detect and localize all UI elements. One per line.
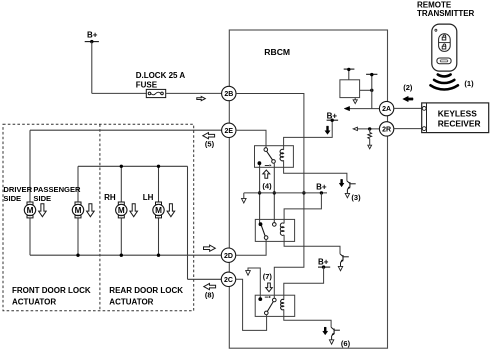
svg-text:FRONT DOOR LOCK: FRONT DOOR LOCK: [12, 286, 91, 295]
svg-text:ACTUATOR: ACTUATOR: [109, 298, 153, 307]
svg-text:ACTUATOR: ACTUATOR: [12, 298, 56, 307]
svg-text:(4): (4): [262, 182, 272, 191]
svg-text:(6): (6): [341, 339, 351, 348]
svg-text:B+: B+: [87, 31, 98, 40]
svg-text:2D: 2D: [224, 253, 233, 260]
svg-text:RBCM: RBCM: [264, 47, 290, 57]
svg-text:REAR DOOR LOCK: REAR DOOR LOCK: [109, 286, 183, 295]
svg-text:(1): (1): [464, 79, 474, 88]
svg-text:2B: 2B: [224, 91, 233, 98]
svg-text:SIDE: SIDE: [3, 194, 21, 203]
svg-text:KEYLESS: KEYLESS: [438, 109, 478, 119]
svg-text:2R: 2R: [382, 127, 391, 134]
svg-text:PASSENGER: PASSENGER: [33, 185, 81, 194]
svg-text:(5): (5): [205, 140, 215, 149]
svg-text:M: M: [27, 206, 34, 215]
svg-text:2C: 2C: [224, 277, 233, 284]
svg-text:SIDE: SIDE: [33, 194, 51, 203]
svg-text:(3): (3): [351, 193, 361, 202]
svg-text:REMOTE: REMOTE: [417, 0, 452, 9]
svg-text:M: M: [75, 206, 82, 215]
svg-text:(8): (8): [205, 290, 215, 299]
svg-text:2E: 2E: [225, 128, 234, 135]
svg-text:B+: B+: [316, 182, 327, 191]
svg-text:FUSE: FUSE: [136, 81, 158, 90]
svg-text:(2): (2): [403, 83, 413, 92]
svg-text:2A: 2A: [382, 106, 391, 113]
svg-text:M: M: [155, 206, 162, 215]
svg-text:RH: RH: [104, 193, 116, 202]
svg-text:RECEIVER: RECEIVER: [438, 118, 481, 128]
svg-text:DRIVER: DRIVER: [3, 185, 32, 194]
svg-text:D.LOCK 25 A: D.LOCK 25 A: [136, 71, 186, 80]
svg-text:B+: B+: [318, 257, 329, 266]
svg-text:LH: LH: [143, 193, 154, 202]
svg-text:(7): (7): [263, 272, 273, 281]
svg-text:TRANSMITTER: TRANSMITTER: [417, 9, 475, 18]
svg-text:M: M: [118, 206, 125, 215]
